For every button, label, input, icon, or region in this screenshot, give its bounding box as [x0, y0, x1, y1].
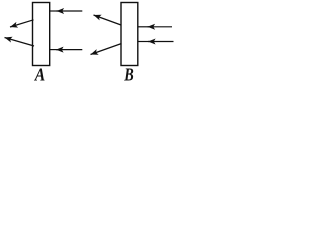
ray out of A, lower left (points left-up)	[5, 38, 35, 47]
box A	[33, 3, 50, 66]
ray into B, bottom right (arrow points left)	[148, 41, 174, 43]
ray into B, top right (arrow points left)	[148, 26, 173, 28]
ray out of B, upper left (points up-left)	[94, 15, 122, 25]
wire stub to box B top right	[138, 26, 149, 28]
svg-text:A: A	[34, 65, 45, 85]
box B	[121, 3, 138, 66]
ray out of B, lower left (points down-left)	[91, 44, 122, 55]
ray out of A, upper left (points left-down)	[10, 20, 34, 27]
wire stub to box A bottom right	[50, 49, 58, 51]
wire stub to box A top right	[50, 10, 58, 12]
wire stub to box B bottom right	[138, 41, 150, 43]
ray into A, top right (arrow points left)	[57, 10, 83, 12]
svg-text:B: B	[123, 65, 134, 85]
ray into A, bottom right (arrow points left)	[56, 49, 82, 51]
